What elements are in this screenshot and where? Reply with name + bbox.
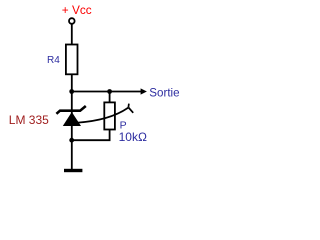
- svg-text:LM 335: LM 335: [9, 113, 49, 127]
- svg-text:R4: R4: [47, 55, 60, 66]
- svg-text:+ Vcc: + Vcc: [62, 3, 92, 17]
- svg-text:Sortie: Sortie: [149, 87, 179, 100]
- svg-text:10kΩ: 10kΩ: [119, 130, 147, 144]
